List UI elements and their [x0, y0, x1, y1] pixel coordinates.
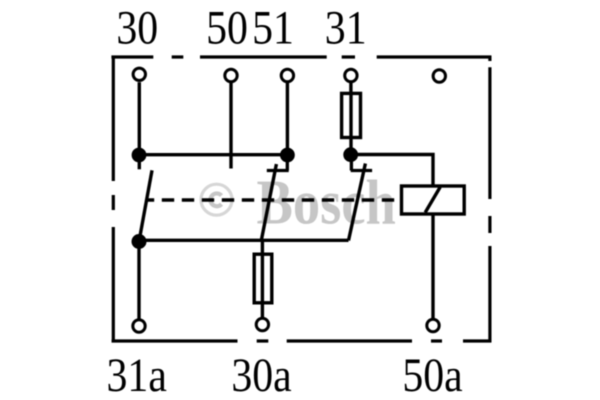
relay coil K1 — [402, 186, 465, 214]
terminal 30 — [133, 68, 145, 80]
wire node J3 to relay coil K1 — [351, 155, 433, 187]
fuse R1 in 31 branch — [342, 93, 361, 137]
svg-text:Bosch: Bosch — [257, 167, 396, 238]
svg-text:30: 30 — [116, 1, 158, 54]
wire rail node J4 to switch S3 — [139, 239, 349, 242]
relay housing outline bottom border — [112, 339, 492, 342]
relay housing outline top border — [111, 55, 491, 58]
wire relay coil K1 to terminal 50a — [431, 214, 434, 318]
terminal 31a — [133, 320, 145, 332]
wire terminal 31 to fuse R1 — [349, 83, 352, 95]
wire fuse R1 to node J3 — [349, 138, 352, 156]
wire rail to fuse R2 — [261, 240, 264, 255]
fuse R2 in 30a branch — [254, 254, 272, 303]
switch S2 fixed contact stub and bar — [267, 155, 289, 171]
watermark copyright symbol — [201, 184, 232, 215]
wire terminal 50 fixed contact — [229, 83, 232, 169]
node J4 junction — [132, 234, 147, 249]
node J2 junction — [280, 148, 295, 163]
svg-text:50: 50 — [206, 1, 248, 54]
node J1 junction — [132, 148, 147, 163]
mechanical linkage dashed line — [146, 198, 401, 201]
terminal 50 — [225, 69, 237, 81]
svg-text:31a: 31a — [107, 349, 167, 400]
terminal 31 — [345, 69, 357, 81]
wire fuse R2 to terminal 30a — [261, 303, 264, 317]
terminal unlabeled top right — [433, 70, 445, 82]
switch S1 movable contact lever — [139, 170, 152, 241]
switch S2 movable contact lever — [261, 164, 276, 242]
terminal 30a — [256, 318, 268, 330]
wire rail node J1 to node J2 — [139, 153, 287, 156]
node J3 junction — [343, 147, 358, 162]
svg-text:31: 31 — [325, 1, 367, 54]
switch S1 fixed contact stub — [138, 155, 141, 169]
wire terminal 51 to node J2 — [286, 83, 289, 155]
switch S3 fixed contact stub and bar — [351, 155, 372, 171]
svg-text:30a: 30a — [231, 349, 291, 400]
switch S3 movable contact lever — [349, 164, 366, 241]
svg-text:51: 51 — [252, 1, 294, 54]
terminal 50a — [427, 319, 439, 331]
wire terminal 30 to node J1 — [138, 82, 141, 155]
relay housing outline left border — [112, 56, 115, 343]
wire node J4 to terminal 31a — [137, 242, 140, 319]
relay housing outline right border — [488, 56, 491, 343]
svg-text:50a: 50a — [402, 349, 462, 400]
terminal 51 — [281, 69, 293, 81]
